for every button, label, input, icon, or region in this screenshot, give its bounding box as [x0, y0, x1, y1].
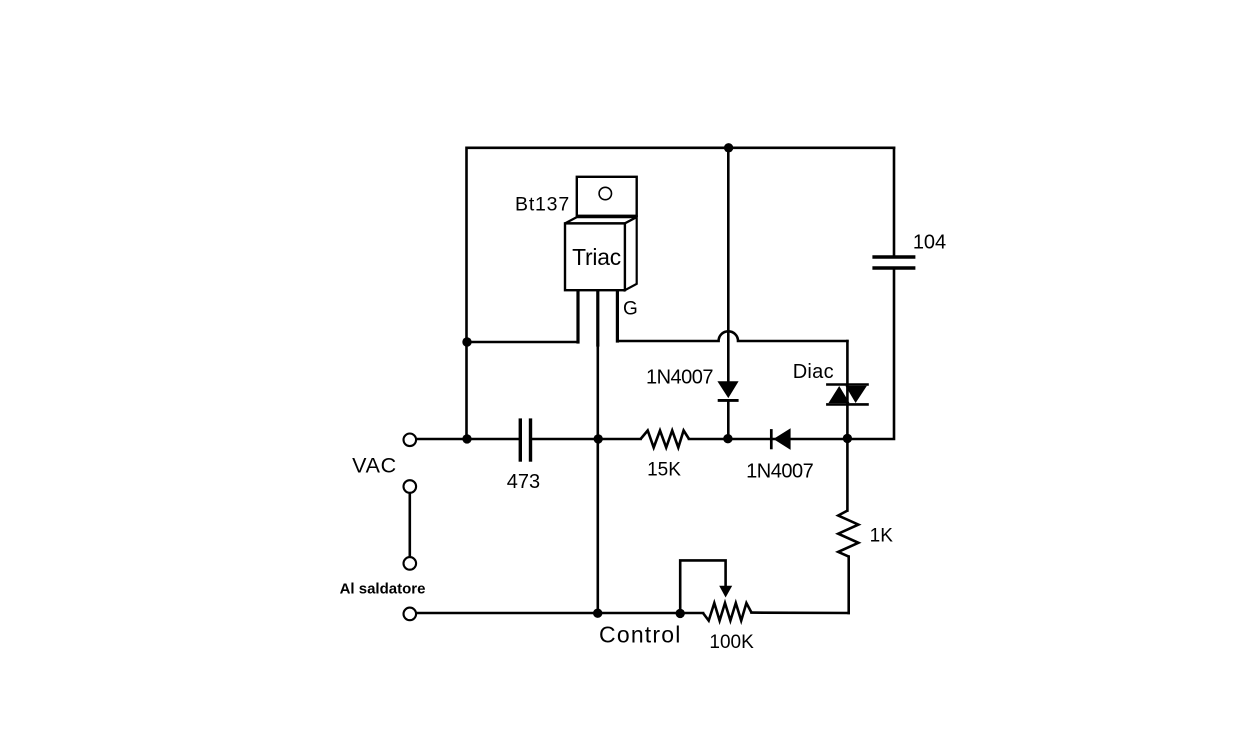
svg-text:1K: 1K	[870, 526, 894, 547]
terminal VAC bottom	[404, 608, 417, 621]
svg-text:Triac: Triac	[572, 244, 621, 270]
terminal VAC link upper	[404, 480, 417, 493]
wire diac branch vertical (gate wire down through diac to 1K)	[846, 341, 849, 511]
svg-text:473: 473	[507, 471, 540, 493]
wire pot wiper loop	[680, 560, 725, 613]
potentiometer R3 wiper arrow	[719, 586, 732, 598]
wire center lead continuation (triac MT2 to bottom rail)	[596, 344, 599, 613]
wire diode D1 cathode to main node	[727, 400, 730, 439]
potentiometer R3 100K zigzag	[703, 603, 752, 621]
node junction MT1 / left rail	[462, 337, 471, 346]
node junction MT2 lead / main rail	[594, 434, 603, 443]
svg-text:104: 104	[913, 231, 946, 253]
diode D1 1N4007 vertical triangle	[717, 381, 738, 398]
wire vertical net at x=728 (top node to diode D1 and main node)	[727, 148, 730, 381]
node junction D1 / main rail	[723, 434, 732, 443]
node junction wiper / bottom rail	[676, 609, 685, 618]
diac DB3 bottom bar	[826, 403, 869, 406]
diac DB3 up triangle	[829, 386, 850, 403]
svg-text:15K: 15K	[647, 459, 681, 480]
terminal VAC link lower	[404, 557, 417, 570]
node junction top rail	[724, 143, 733, 152]
triac Q1 body right face	[625, 217, 637, 290]
triac Q1 tab	[577, 177, 637, 216]
wire right vertical lower (cap 104 to main node)	[689, 270, 894, 439]
node junction left rail / main rail	[462, 434, 471, 443]
svg-text:G: G	[623, 299, 638, 320]
capacitor C2 104 plates	[872, 257, 915, 268]
diac DB3 down triangle	[845, 386, 867, 403]
svg-text:Control: Control	[599, 622, 682, 648]
wire bottom rail right (pot to 1K)	[752, 611, 849, 614]
svg-text:Diac: Diac	[793, 361, 834, 383]
capacitor C1 473 plates	[520, 418, 530, 461]
triac Q1 body top face	[565, 217, 637, 223]
node junction diac / main rail	[843, 434, 852, 443]
wire main horizontal left (VAC terminal to cap 473)	[416, 438, 519, 441]
svg-text:1N4007: 1N4007	[746, 461, 813, 483]
svg-text:Al saldatore: Al saldatore	[340, 581, 426, 598]
diac DB3 top bar	[826, 383, 869, 386]
wire triac MT1 lead horizontal	[467, 341, 578, 344]
diode D1 cathode bar	[718, 399, 739, 402]
svg-text:VAC: VAC	[352, 453, 397, 477]
diode D2 1N4007 horizontal triangle	[773, 428, 790, 450]
wire cap 473 to resistor 15K	[532, 438, 641, 441]
wire bottom rail left (terminal to pot)	[416, 612, 703, 615]
svg-text:Bt137: Bt137	[515, 194, 570, 216]
diode D2 cathode bar	[770, 429, 773, 449]
wire top-left loop: left vertical + top horizontal	[467, 148, 895, 439]
svg-text:1N4007: 1N4007	[646, 367, 713, 389]
triac Q1 body front face	[565, 223, 625, 290]
triac Q1 mounting hole	[599, 187, 611, 199]
triac Q1 leads	[578, 290, 617, 345]
svg-text:100K: 100K	[709, 632, 754, 653]
terminal VAC top	[404, 434, 417, 447]
wire 1K bottom to bottom rail	[847, 557, 850, 613]
wire triac gate G horizontal with hop	[617, 331, 847, 341]
node junction MT2 lead / bottom rail	[593, 609, 602, 618]
resistor R1 15K zigzag	[641, 431, 689, 448]
wire VAC jumper between middle terminals	[408, 493, 411, 556]
resistor R2 1K zigzag vertical	[838, 511, 858, 557]
wire right vertical upper (to cap 104)	[893, 148, 896, 256]
